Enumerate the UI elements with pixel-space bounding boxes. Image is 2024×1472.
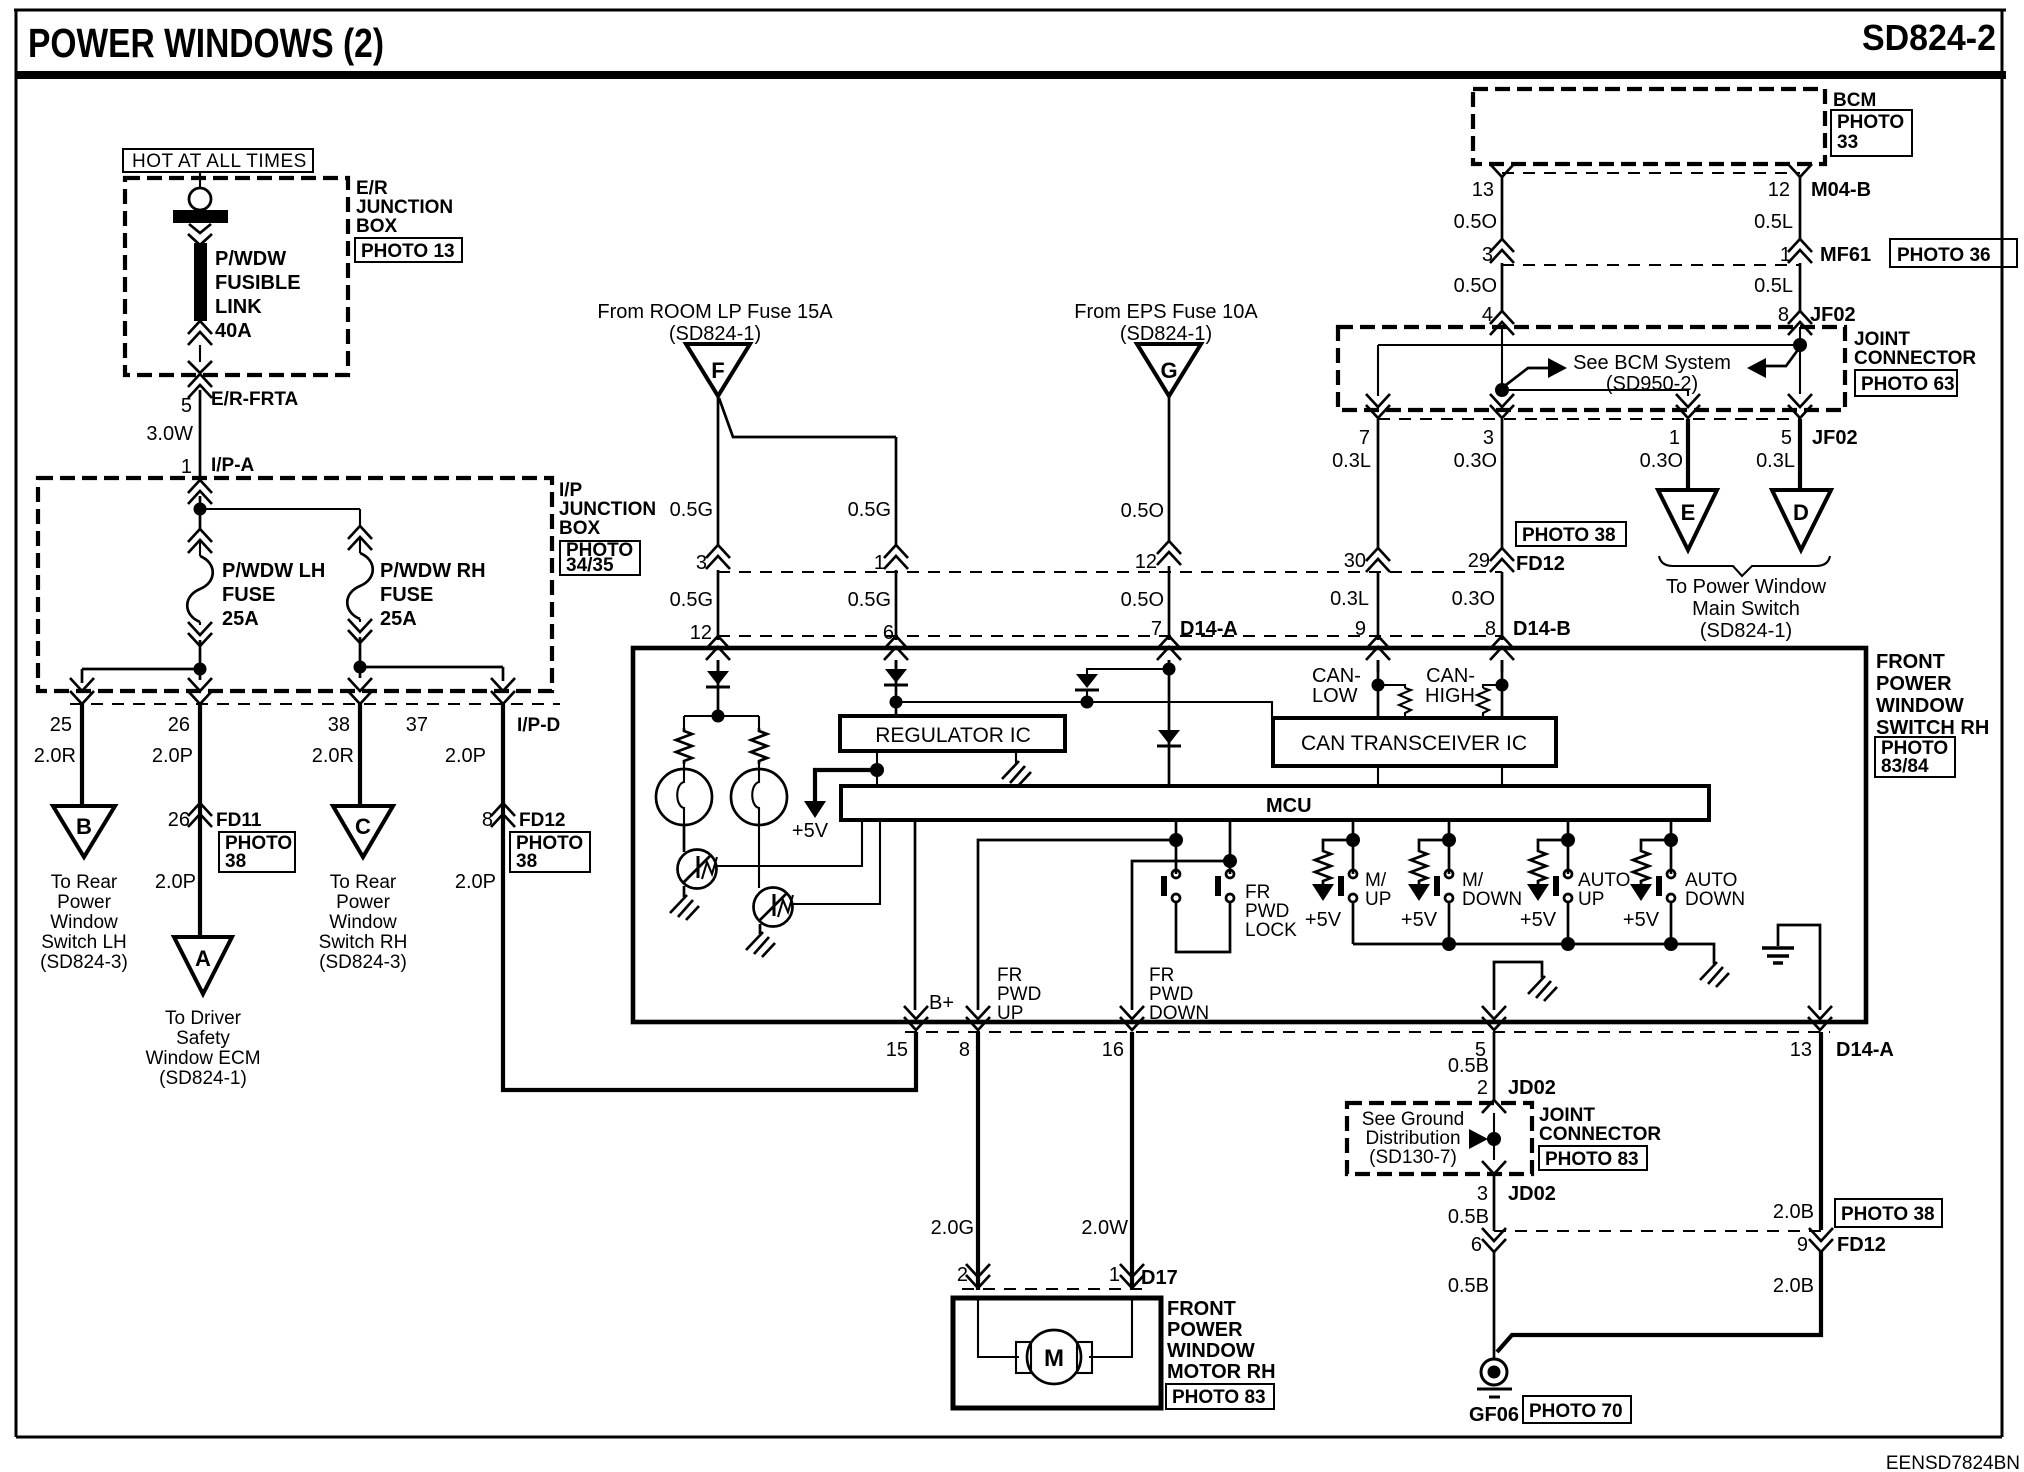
svg-text:8: 8 xyxy=(482,809,493,831)
svg-text:FR: FR xyxy=(1245,882,1270,903)
svg-text:To Driver: To Driver xyxy=(165,1008,242,1029)
svg-text:AUTO: AUTO xyxy=(1578,870,1630,891)
svg-text:LINK: LINK xyxy=(215,296,262,318)
svg-text:Safety: Safety xyxy=(176,1028,230,1049)
svg-text:WINDOW: WINDOW xyxy=(1876,695,1964,717)
svg-text:JD02: JD02 xyxy=(1508,1077,1556,1099)
svg-text:(SD950-2): (SD950-2) xyxy=(1606,373,1698,395)
svg-text:DOWN: DOWN xyxy=(1149,1003,1209,1024)
svg-text:0.5O: 0.5O xyxy=(1454,211,1497,233)
svg-text:FUSE: FUSE xyxy=(380,584,433,606)
svg-text:7: 7 xyxy=(1359,427,1370,449)
svg-text:Window: Window xyxy=(50,912,118,933)
svg-text:MCU: MCU xyxy=(1266,795,1312,817)
svg-text:9: 9 xyxy=(1355,618,1366,640)
svg-text:2.0R: 2.0R xyxy=(34,745,76,767)
svg-text:0.3O: 0.3O xyxy=(1454,450,1497,472)
svg-text:LOCK: LOCK xyxy=(1245,920,1297,941)
svg-text:LOW: LOW xyxy=(1312,685,1358,707)
svg-text:MF61: MF61 xyxy=(1820,244,1871,266)
svg-text:83/84: 83/84 xyxy=(1881,756,1929,777)
svg-text:2.0B: 2.0B xyxy=(1773,1201,1814,1223)
svg-text:PHOTO: PHOTO xyxy=(1837,112,1904,133)
svg-text:15: 15 xyxy=(886,1039,908,1061)
svg-text:38: 38 xyxy=(516,851,537,872)
svg-text:UP: UP xyxy=(1365,889,1391,910)
svg-text:26: 26 xyxy=(168,714,190,736)
svg-text:JOINT: JOINT xyxy=(1854,329,1910,350)
svg-text:PHOTO 83: PHOTO 83 xyxy=(1545,1149,1639,1170)
svg-text:0.5O: 0.5O xyxy=(1454,275,1497,297)
svg-text:POWER: POWER xyxy=(1167,1319,1243,1341)
svg-text:PHOTO 63: PHOTO 63 xyxy=(1861,374,1955,395)
svg-text:0.5L: 0.5L xyxy=(1754,211,1793,233)
svg-text:(SD824-3): (SD824-3) xyxy=(40,952,128,973)
svg-text:G: G xyxy=(1160,358,1177,383)
svg-text:POWER WINDOWS (2): POWER WINDOWS (2) xyxy=(28,20,384,66)
svg-text:3: 3 xyxy=(696,552,707,574)
svg-text:BCM: BCM xyxy=(1833,90,1876,111)
svg-text:12: 12 xyxy=(1768,179,1790,201)
svg-text:M/: M/ xyxy=(1365,870,1387,891)
svg-text:I/P: I/P xyxy=(559,480,583,501)
svg-text:Switch LH: Switch LH xyxy=(41,932,127,953)
svg-text:D14-A: D14-A xyxy=(1836,1039,1894,1061)
svg-text:E/R: E/R xyxy=(356,178,388,199)
svg-text:UP: UP xyxy=(997,1003,1023,1024)
svg-text:2.0B: 2.0B xyxy=(1773,1275,1814,1297)
svg-text:1: 1 xyxy=(1109,1264,1120,1286)
svg-text:3.0W: 3.0W xyxy=(146,423,193,445)
svg-text:WINDOW: WINDOW xyxy=(1167,1340,1255,1362)
svg-text:8: 8 xyxy=(1778,304,1789,326)
svg-text:FR: FR xyxy=(997,965,1022,986)
svg-text:5: 5 xyxy=(181,395,192,417)
svg-text:A: A xyxy=(195,946,211,971)
svg-text:33: 33 xyxy=(1837,132,1858,153)
svg-text:JOINT: JOINT xyxy=(1539,1105,1595,1126)
svg-text:(SD824-3): (SD824-3) xyxy=(319,952,407,973)
svg-text:F: F xyxy=(711,358,724,383)
svg-text:M/: M/ xyxy=(1462,870,1484,891)
svg-text:5: 5 xyxy=(1781,427,1792,449)
svg-text:2.0P: 2.0P xyxy=(445,745,486,767)
svg-text:AUTO: AUTO xyxy=(1685,870,1737,891)
svg-text:FD11: FD11 xyxy=(216,810,262,831)
svg-text:PWD: PWD xyxy=(1149,984,1193,1005)
svg-text:30: 30 xyxy=(1344,550,1366,572)
svg-text:FD12: FD12 xyxy=(1837,1234,1886,1256)
svg-text:3: 3 xyxy=(1477,1183,1488,1205)
svg-text:CONNECTOR: CONNECTOR xyxy=(1854,348,1976,369)
svg-text:(SD130-7): (SD130-7) xyxy=(1369,1147,1457,1168)
svg-text:+5V: +5V xyxy=(1623,909,1660,931)
svg-text:CAN-: CAN- xyxy=(1426,665,1475,687)
svg-text:FUSE: FUSE xyxy=(222,584,275,606)
svg-text:+5V: +5V xyxy=(1305,909,1342,931)
svg-text:6: 6 xyxy=(1471,1234,1482,1256)
svg-text:FR: FR xyxy=(1149,965,1174,986)
svg-text:PHOTO 13: PHOTO 13 xyxy=(361,241,455,262)
svg-text:To Rear: To Rear xyxy=(330,872,397,893)
svg-text:16: 16 xyxy=(1102,1039,1124,1061)
svg-text:26: 26 xyxy=(168,809,190,831)
svg-text:M04-B: M04-B xyxy=(1811,179,1871,201)
svg-text:See BCM System: See BCM System xyxy=(1573,352,1731,374)
svg-text:JD02: JD02 xyxy=(1508,1183,1556,1205)
svg-text:PHOTO 70: PHOTO 70 xyxy=(1529,1401,1623,1422)
svg-text:2.0W: 2.0W xyxy=(1081,1217,1128,1239)
svg-text:25: 25 xyxy=(50,714,72,736)
svg-text:+5V: +5V xyxy=(1520,909,1557,931)
svg-text:CAN-: CAN- xyxy=(1312,665,1361,687)
svg-text:SWITCH RH: SWITCH RH xyxy=(1876,717,1989,739)
svg-text:13: 13 xyxy=(1790,1039,1812,1061)
svg-text:SD824-2: SD824-2 xyxy=(1862,17,1996,58)
svg-text:2.0R: 2.0R xyxy=(312,745,354,767)
svg-text:To Power Window: To Power Window xyxy=(1666,576,1827,598)
svg-text:UP: UP xyxy=(1578,889,1604,910)
svg-text:38: 38 xyxy=(225,851,246,872)
svg-text:B: B xyxy=(76,814,92,839)
svg-text:M: M xyxy=(1044,1345,1064,1372)
svg-text:2.0P: 2.0P xyxy=(155,871,196,893)
svg-text:JF02: JF02 xyxy=(1812,427,1858,449)
svg-text:MOTOR RH: MOTOR RH xyxy=(1167,1361,1276,1383)
svg-text:0.5B: 0.5B xyxy=(1448,1275,1489,1297)
svg-text:PHOTO 38: PHOTO 38 xyxy=(1522,525,1616,546)
svg-text:0.5O: 0.5O xyxy=(1121,589,1164,611)
svg-text:0.5G: 0.5G xyxy=(848,589,891,611)
svg-text:FRONT: FRONT xyxy=(1167,1298,1236,1320)
svg-text:8: 8 xyxy=(1485,618,1496,640)
svg-text:25A: 25A xyxy=(380,608,417,630)
svg-text:0.5G: 0.5G xyxy=(670,499,713,521)
svg-text:9: 9 xyxy=(1797,1234,1808,1256)
svg-text:CAN TRANSCEIVER IC: CAN TRANSCEIVER IC xyxy=(1301,732,1527,755)
svg-text:PHOTO 38: PHOTO 38 xyxy=(1841,1204,1935,1225)
svg-text:BOX: BOX xyxy=(559,518,601,539)
svg-text:E: E xyxy=(1681,500,1696,525)
svg-text:PWD: PWD xyxy=(1245,901,1289,922)
svg-text:13: 13 xyxy=(1472,179,1494,201)
svg-text:0.3L: 0.3L xyxy=(1330,588,1369,610)
svg-text:Distribution: Distribution xyxy=(1365,1128,1460,1149)
svg-text:0.5G: 0.5G xyxy=(848,499,891,521)
svg-text:DOWN: DOWN xyxy=(1685,889,1745,910)
svg-text:FD12: FD12 xyxy=(1516,553,1565,575)
svg-text:1: 1 xyxy=(1669,427,1680,449)
svg-text:FD12: FD12 xyxy=(519,810,565,831)
svg-text:JF02: JF02 xyxy=(1810,304,1856,326)
svg-text:Main Switch: Main Switch xyxy=(1692,598,1800,620)
svg-text:0.5L: 0.5L xyxy=(1754,275,1793,297)
svg-text:B+: B+ xyxy=(929,992,954,1014)
svg-text:0.5O: 0.5O xyxy=(1121,500,1164,522)
svg-text:P/WDW RH: P/WDW RH xyxy=(380,560,486,582)
svg-text:POWER: POWER xyxy=(1876,673,1952,695)
svg-text:Switch RH: Switch RH xyxy=(319,932,408,953)
svg-text:2: 2 xyxy=(1477,1077,1488,1099)
svg-text:0.3O: 0.3O xyxy=(1640,450,1683,472)
svg-text:29: 29 xyxy=(1468,550,1490,572)
svg-text:D14-B: D14-B xyxy=(1513,618,1571,640)
svg-text:12: 12 xyxy=(1135,551,1157,573)
svg-text:(SD824-1): (SD824-1) xyxy=(1120,323,1212,345)
svg-text:40A: 40A xyxy=(215,320,252,342)
svg-text:12: 12 xyxy=(690,622,712,644)
svg-text:0.3O: 0.3O xyxy=(1452,588,1495,610)
svg-text:JUNCTION: JUNCTION xyxy=(559,499,656,520)
svg-text:DOWN: DOWN xyxy=(1462,889,1522,910)
svg-text:3: 3 xyxy=(1483,427,1494,449)
svg-text:REGULATOR IC: REGULATOR IC xyxy=(875,724,1031,747)
svg-text:I/P-A: I/P-A xyxy=(211,455,255,476)
svg-text:2.0G: 2.0G xyxy=(931,1217,974,1239)
svg-text:0.5G: 0.5G xyxy=(670,589,713,611)
svg-text:HOT AT ALL TIMES: HOT AT ALL TIMES xyxy=(132,151,307,172)
svg-text:Power: Power xyxy=(57,892,112,913)
svg-text:E/R-FRTA: E/R-FRTA xyxy=(211,389,299,410)
svg-text:8: 8 xyxy=(959,1039,970,1061)
svg-text:GF06: GF06 xyxy=(1469,1404,1519,1426)
svg-text:PHOTO 36: PHOTO 36 xyxy=(1897,245,1991,266)
svg-text:0.5B: 0.5B xyxy=(1448,1206,1489,1228)
svg-text:BOX: BOX xyxy=(356,216,398,237)
svg-text:P/WDW LH: P/WDW LH xyxy=(222,560,325,582)
svg-text:6: 6 xyxy=(883,622,894,644)
svg-text:D17: D17 xyxy=(1141,1267,1178,1289)
svg-text:2.0P: 2.0P xyxy=(152,745,193,767)
svg-text:PHOTO 83: PHOTO 83 xyxy=(1172,1387,1266,1408)
svg-text:From ROOM LP Fuse 15A: From ROOM LP Fuse 15A xyxy=(597,301,833,323)
svg-text:0.5B: 0.5B xyxy=(1448,1055,1489,1077)
svg-text:See Ground: See Ground xyxy=(1362,1109,1464,1130)
svg-text:HIGH: HIGH xyxy=(1425,685,1475,707)
svg-text:+5V: +5V xyxy=(792,820,829,842)
svg-text:P/WDW: P/WDW xyxy=(215,248,286,270)
svg-text:+5V: +5V xyxy=(1401,909,1438,931)
svg-text:(SD824-1): (SD824-1) xyxy=(159,1068,247,1089)
svg-text:I/P-D: I/P-D xyxy=(517,715,560,736)
svg-text:Window ECM: Window ECM xyxy=(145,1048,260,1069)
svg-text:0.3L: 0.3L xyxy=(1756,450,1795,472)
svg-text:37: 37 xyxy=(406,714,428,736)
svg-text:1: 1 xyxy=(874,552,885,574)
svg-text:2.0P: 2.0P xyxy=(455,871,496,893)
svg-text:Window: Window xyxy=(329,912,397,933)
svg-text:FRONT: FRONT xyxy=(1876,651,1945,673)
svg-text:(SD824-1): (SD824-1) xyxy=(669,323,761,345)
svg-text:FUSIBLE: FUSIBLE xyxy=(215,272,301,294)
svg-text:1: 1 xyxy=(181,456,192,478)
svg-text:C: C xyxy=(355,814,371,839)
svg-text:JUNCTION: JUNCTION xyxy=(356,197,453,218)
svg-text:25A: 25A xyxy=(222,608,259,630)
svg-text:PWD: PWD xyxy=(997,984,1041,1005)
svg-text:38: 38 xyxy=(328,714,350,736)
svg-text:Power: Power xyxy=(336,892,391,913)
svg-text:D: D xyxy=(1793,500,1809,525)
svg-text:EENSD7824BN: EENSD7824BN xyxy=(1886,1453,2020,1472)
svg-text:34/35: 34/35 xyxy=(566,555,614,576)
svg-text:(SD824-1): (SD824-1) xyxy=(1700,620,1792,642)
svg-text:0.3L: 0.3L xyxy=(1332,450,1371,472)
svg-text:From EPS Fuse 10A: From EPS Fuse 10A xyxy=(1074,301,1258,323)
svg-text:CONNECTOR: CONNECTOR xyxy=(1539,1124,1661,1145)
svg-text:To Rear: To Rear xyxy=(51,872,118,893)
